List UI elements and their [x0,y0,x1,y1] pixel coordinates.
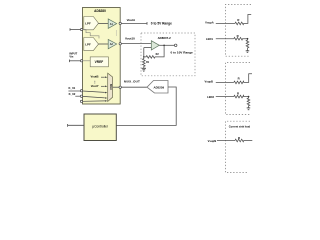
ground [142,67,146,69]
svg-text:K_01: K_01 [69,86,76,90]
wire MUX_OUT to AD5259 [121,86,147,88]
svg-text:R: R [237,34,239,38]
wire LPF B to amp A2 [99,43,109,45]
wire SEL B stub [75,95,80,97]
ground row4 [247,107,251,109]
pin input A [80,28,82,30]
wire SEL B to mux [83,96,105,98]
resistor row5 [235,139,252,142]
ground row2 [246,50,250,52]
resistor row2 [234,37,248,40]
svg-text:K_02: K_02 [69,92,76,96]
svg-text:MUX_OUT: MUX_OUT [124,79,140,83]
digipot AD5259 [147,81,168,94]
op-amp U2 AD8607 [151,41,159,50]
wire LPF A to amp A1 [99,22,109,24]
svg-text:MUX: MUX [109,84,113,90]
wire row5 [217,140,235,142]
svg-text:Vin: Vin [69,55,73,59]
wire Vin stub [69,60,80,62]
svg-text:R: R [238,76,240,80]
wire VoutY arrow [101,85,105,87]
dashed load box 3 [225,121,250,172]
terminal output circle [174,44,177,47]
wire row1 [216,22,235,24]
channel ellipsis dots [116,31,117,32]
node row2 [247,38,249,40]
wire row3 [216,81,234,83]
svg-text:R: R [238,136,240,140]
svg-text:0 to 5V Range: 0 to 5V Range [151,22,172,26]
wire uController left stub [68,124,84,126]
resistor row1 [235,15,251,25]
svg-text:0 to 10V Range: 0 to 10V Range [171,51,193,55]
wire inverting input [144,47,152,49]
svg-text:AD8607-2: AD8607-2 [158,36,172,40]
wire SEL A stub [68,90,80,92]
LPF block B [84,38,99,51]
wire chain input A to LPF B [83,30,99,39]
mux input ellipsis [94,81,95,82]
svg-text:R: R [237,18,239,22]
VREF block [90,57,108,67]
pin Vout10 [119,43,121,45]
resistor row3 [234,74,252,84]
svg-text:VoutA: VoutA [127,18,136,22]
resistor R1 vertical [143,58,146,69]
svg-text:VsupA: VsupA [205,21,214,25]
svg-text:LPF: LPF [85,21,91,25]
wire op-amp output [159,44,174,46]
wire row2 [216,38,234,40]
pin SEL C [80,100,82,102]
wire input A stub [70,29,80,31]
op-amp A2 [108,39,117,48]
wire VoutA [121,22,147,24]
dashed load box 1 [225,5,251,57]
pin MUX_OUT [119,86,121,88]
svg-text:VoutB: VoutB [90,75,98,79]
pin SEL A [80,90,82,92]
svg-text:VsupN: VsupN [208,139,217,143]
resistor row2 vertical [246,39,249,51]
IC U1 body [83,8,121,105]
svg-text:R: R [237,92,239,96]
svg-text:μController: μController [92,125,109,129]
wire AD5259 to uController [116,87,176,125]
wire Vin to VREF [83,60,90,62]
resistor R2 feedback [144,45,164,58]
svg-text:LED2: LED2 [207,95,214,99]
svg-text:LED1: LED1 [206,37,213,41]
pin input Vin [80,60,82,62]
pin SEL B [80,95,82,97]
svg-text:VsupB: VsupB [204,80,213,84]
wire VoutB arrow [101,76,105,78]
svg-text:VREF: VREF [95,60,104,64]
resistor row4 [234,95,249,98]
node junction [143,56,145,58]
LPF block A [84,17,99,30]
pin VoutA [119,22,121,24]
wire SEL C to mux [83,100,106,102]
svg-text:LPF: LPF [85,42,91,46]
svg-text:VoutY: VoutY [91,84,99,88]
node row4 [248,96,250,98]
wire row4 [216,96,234,98]
resistor row4 vertical [247,97,250,108]
wire Vout10 to comparator [121,43,151,45]
svg-text:AD8280: AD8280 [94,9,106,13]
uController block [84,114,116,141]
dashed load box 2 [225,63,250,115]
svg-text:Vout10: Vout10 [125,37,135,41]
svg-text:Current sink load: Current sink load [229,125,251,129]
op-amp A1 [108,19,117,29]
wire SEL A to mux [83,91,105,92]
mux U1b [108,73,113,101]
svg-text:AD5259: AD5259 [153,85,164,89]
wire down to junction [143,48,145,57]
dashed box comparator AD8607 [141,33,195,76]
node output [163,45,165,47]
wire mux out [113,86,119,88]
